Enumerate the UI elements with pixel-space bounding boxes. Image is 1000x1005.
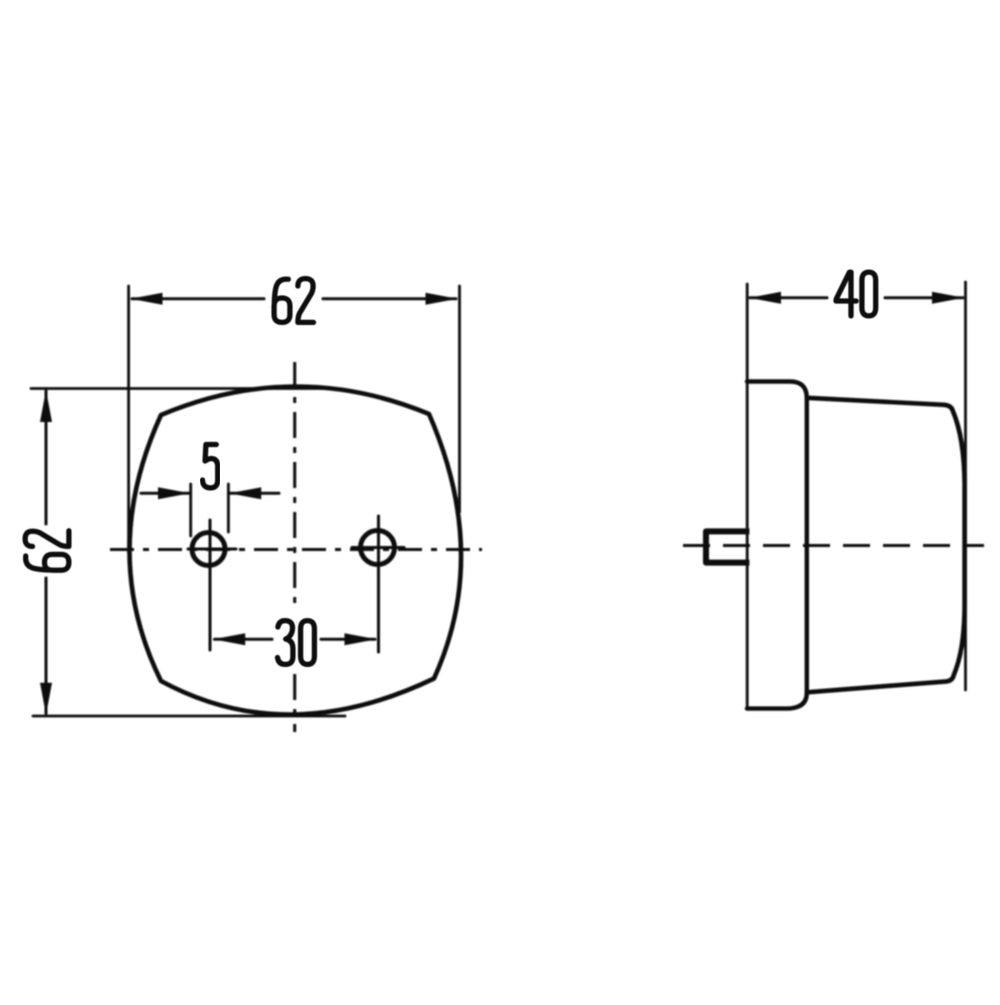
dimension 30 line: [215, 638, 376, 641]
mounting hole right: [361, 531, 395, 565]
horizontal centerline front view: [110, 548, 482, 551]
label 62 horizontal: [274, 279, 313, 323]
dimension 62 horizontal arrowheads: [131, 293, 458, 305]
terminal plug: [706, 531, 746, 562]
dimension 30 arrowheads: [213, 633, 376, 645]
dimension 5 extension lines: [191, 484, 229, 536]
vertical centerline front view: [293, 362, 296, 732]
label 5: [203, 445, 218, 488]
hole right crosshair: [352, 516, 404, 652]
dimension 62 vertical line: [45, 391, 48, 714]
label 40: [836, 272, 876, 316]
dimension 62 horizontal extension lines: [129, 286, 460, 553]
dimension 62 horizontal line: [132, 297, 456, 300]
dimension 40 arrowheads: [749, 292, 964, 304]
dimension 5 line with outside arrows: [141, 492, 279, 495]
dimension 62 vertical extension lines: [31, 389, 345, 717]
side view flange outline: [747, 382, 807, 709]
dimension 62 vertical arrowheads: [40, 390, 52, 715]
hole left crosshair: [188, 520, 236, 650]
side view lamp body outline: [807, 398, 965, 693]
label 62 vertical: [25, 531, 69, 570]
dimension 40 extension lines: [747, 282, 965, 709]
front view body outline: [130, 386, 462, 714]
side view centerline: [683, 544, 984, 547]
label 30: [278, 621, 315, 665]
dimension 5 arrowheads: [158, 487, 261, 499]
mounting hole left: [192, 533, 225, 566]
dimension 40 line: [750, 296, 963, 299]
